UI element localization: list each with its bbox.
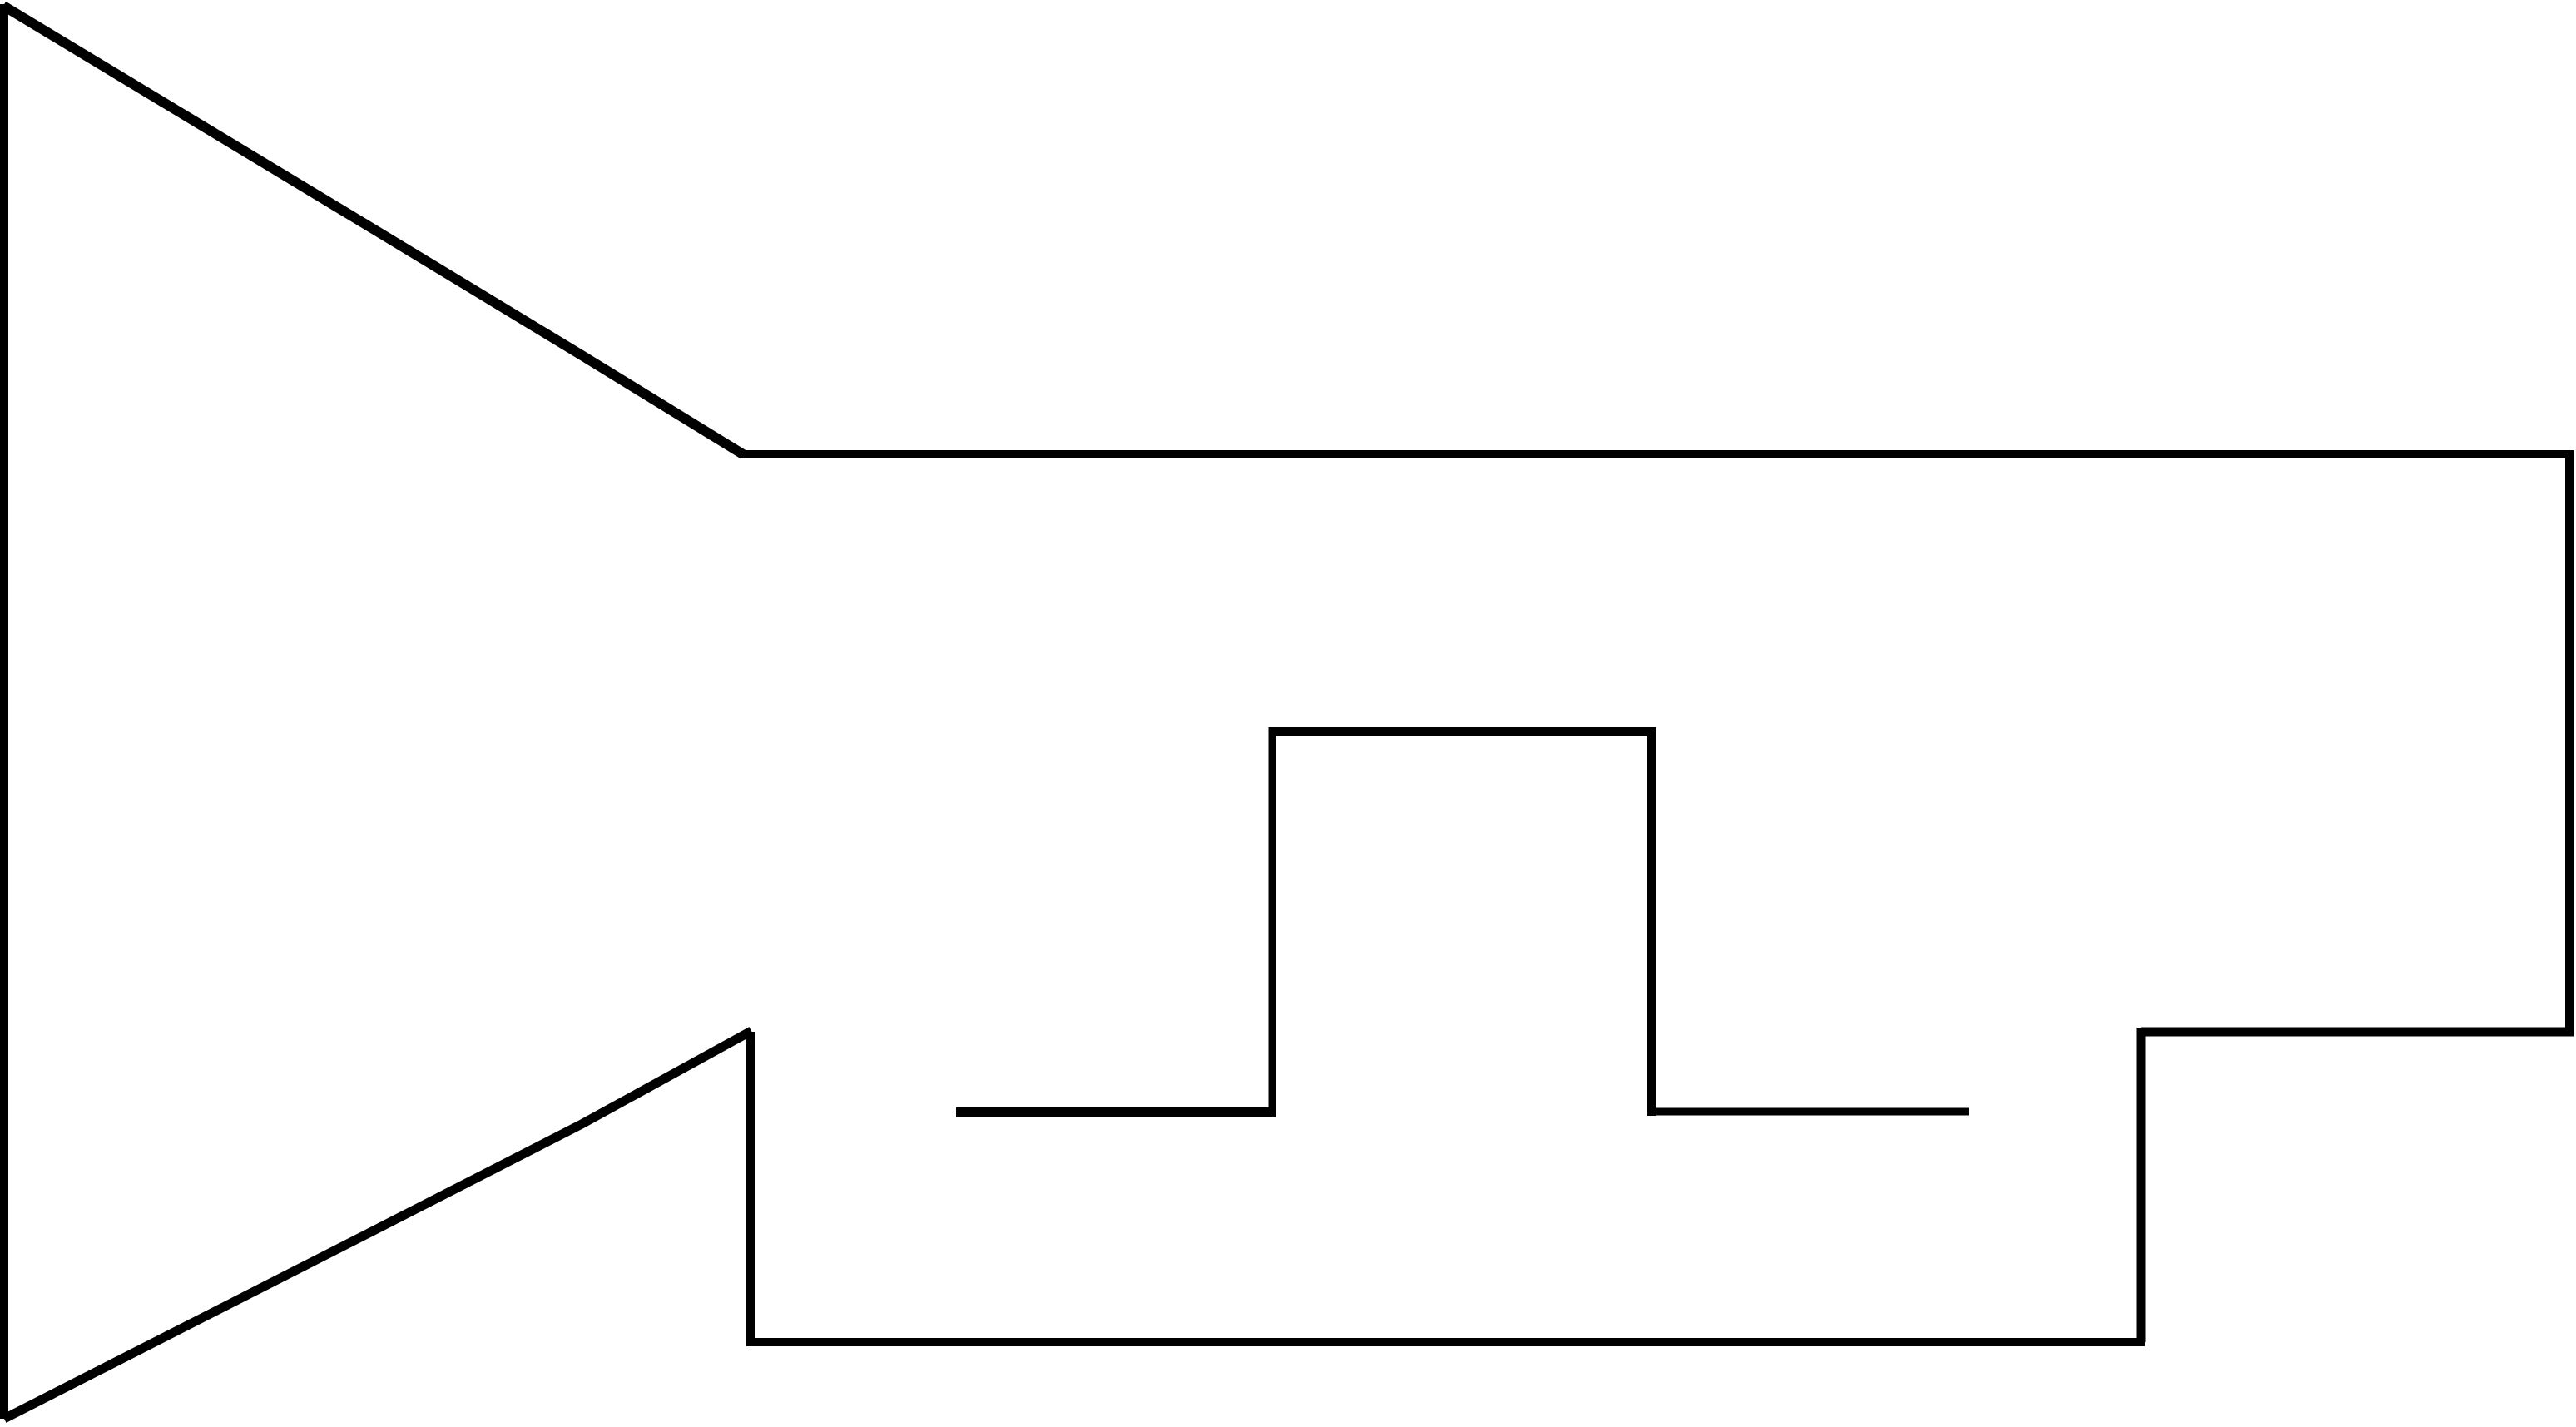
wire top-horizontal B-C — [740, 450, 2569, 458]
wire mid-vertical G-P — [746, 1032, 755, 1346]
wire step-vertical E-F — [2137, 1028, 2146, 1342]
wire pulse-rise — [1269, 727, 1276, 1117]
wire step-horizontal D-E — [2141, 1028, 2574, 1037]
wire right-vertical C-D — [2565, 450, 2574, 1032]
wire pulse-low-left — [956, 1107, 1276, 1117]
wire pulse-low-right — [1647, 1108, 1969, 1116]
wire left-vertical A-H — [0, 8, 8, 1415]
wire bottom-diagonal P-H — [4, 1031, 751, 1419]
wire top-diagonal A-B — [3, 6, 743, 454]
wire pulse-fall — [1647, 727, 1656, 1116]
wire pulse-high — [1269, 727, 1656, 736]
wire bottom-horizontal F-G — [751, 1338, 2145, 1346]
